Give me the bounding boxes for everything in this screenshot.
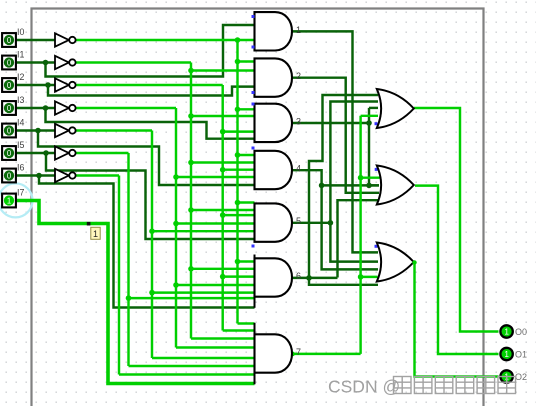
junction I4 branch: [35, 128, 41, 134]
svg-text:0: 0: [7, 36, 12, 45]
svg-text:1: 1: [296, 25, 301, 35]
wire I0' stub to gate5: [238, 201, 255, 203]
junction I5' branch to gate6: [126, 295, 132, 301]
wire I3' stub to gate7: [176, 346, 255, 348]
floating input dot at 253,47: [252, 46, 255, 49]
junction gate3 column top: [366, 120, 372, 126]
wire input I2 to inverter: [16, 84, 55, 86]
wire I0' into gate1: [238, 39, 255, 41]
watermark cjk glyph 5: [477, 377, 495, 394]
junction I0' at gate1 feed: [235, 37, 241, 43]
svg-text:0: 0: [7, 172, 12, 181]
junction I3 branch: [43, 105, 49, 111]
svg-text:5: 5: [296, 216, 301, 226]
wire I1' stub to gate3: [191, 115, 255, 117]
watermark cjk glyph 1: [394, 377, 412, 394]
wire I3' stub to gate6: [176, 284, 255, 286]
junction I1' branch to gate3: [188, 113, 194, 119]
output pin O2: [500, 370, 512, 382]
and-gate G4: [255, 151, 293, 189]
input pin I4: [2, 124, 16, 138]
junction gate7 output: [290, 352, 295, 357]
svg-text:I5: I5: [17, 140, 24, 150]
inverter U3 on I2: [55, 78, 76, 91]
wire net I4 direct to gate4: [38, 131, 255, 186]
wire gate2 output to OR column: [292, 78, 379, 193]
junction I0' branch to gate6: [235, 259, 241, 265]
svg-text:I7: I7: [17, 188, 24, 198]
wire gate5 output: [292, 222, 330, 224]
floating input dot at 376,123.7: [375, 122, 378, 125]
or-gate OR1 (O0): [377, 89, 414, 128]
floating input dot at 253,92.5: [252, 91, 255, 94]
wire gate3 output: [292, 122, 369, 124]
wire input I6 to inverter: [16, 174, 55, 176]
junction I0' branch to gate2: [235, 59, 241, 65]
input pin I6: [2, 169, 16, 183]
wire gate5 to OR1: [330, 102, 378, 223]
wire net I4' vertical column: [151, 131, 153, 359]
and-gate G7: [255, 323, 293, 385]
junction I4' branch to gate5: [149, 228, 155, 234]
wire I0' stub to gate2: [238, 60, 255, 62]
wire net I5' vertical column: [127, 153, 129, 366]
svg-text:1: 1: [504, 328, 509, 337]
junction I3' branch to gate4: [173, 174, 179, 180]
svg-text:CSDN @: CSDN @: [328, 377, 400, 397]
inverter U4 on I3: [55, 101, 76, 114]
wire gate3 stub to OR2: [369, 184, 379, 186]
input pin I0: [2, 33, 16, 47]
wire I3' stub to gate4: [176, 176, 255, 178]
wire net I7 (selected, thick) to gate7: [16, 201, 255, 384]
watermark cjk glyph 2: [414, 377, 432, 394]
wire net I6 direct to gate6: [39, 176, 255, 308]
wire net I3' vertical column: [175, 108, 177, 348]
wire I4' stub to gate7: [152, 357, 255, 359]
input pin I7: [2, 194, 16, 208]
wire I0' stub to gate3: [238, 108, 255, 110]
junction I2' branch to gate3: [220, 129, 226, 135]
svg-text:2: 2: [296, 71, 301, 81]
input pin I2: [2, 78, 16, 92]
wire I1' stub to gate4: [191, 161, 255, 163]
junction gate5 split: [328, 220, 334, 226]
svg-text:I2: I2: [17, 72, 24, 82]
wire I0' stub to gate4: [238, 154, 255, 156]
wire I3' stub to gate5: [176, 222, 255, 224]
wire gate4 output to OR3: [292, 170, 378, 269]
wire OR1 output to pin O0: [414, 108, 499, 332]
svg-text:1: 1: [7, 197, 11, 206]
wire I0' stub to gate7: [238, 322, 255, 324]
wire input I1 to inverter: [16, 61, 55, 63]
wire input I3 to inverter: [16, 107, 55, 109]
and-gate G2: [255, 58, 293, 96]
wire gate7 column: [359, 116, 361, 354]
wire gate3 column: [368, 108, 370, 185]
wire I2' stub to gate4: [223, 168, 255, 170]
inverter U1 on I0: [55, 33, 76, 46]
wire net I1' vertical column: [190, 63, 192, 339]
svg-text:0: 0: [7, 104, 12, 113]
wire net I0' output run: [76, 39, 238, 41]
wire gate6 to OR3 wing: [309, 278, 378, 285]
wire I1' stub to gate6: [191, 268, 255, 270]
junction gate3 to OR2: [366, 183, 372, 189]
watermark cjk glyph 4: [456, 377, 474, 394]
junction I0' branch to gate4: [235, 152, 241, 158]
wire net I1 direct to gate1: [46, 25, 255, 77]
wire input I4 to inverter: [16, 129, 55, 131]
svg-text:0: 0: [7, 127, 12, 136]
output dot OR3 tip: [412, 260, 416, 264]
svg-text:I0: I0: [17, 27, 24, 37]
junction gate7 to OR2: [358, 175, 364, 181]
svg-text:O2: O2: [515, 372, 527, 382]
wire net I2 direct to gate2: [48, 85, 255, 96]
wire net I3' output run: [76, 107, 176, 109]
wire net I6' vertical column: [118, 176, 120, 375]
junction I2' branch to gate6: [220, 274, 226, 280]
wire net I2' vertical column: [221, 85, 223, 331]
wire I0' stub to gate6: [238, 260, 255, 262]
inverter U5 on I4: [55, 124, 76, 137]
input pin I5: [2, 146, 16, 160]
svg-text:4: 4: [296, 164, 301, 174]
junction gate7 to OR3: [358, 274, 364, 280]
wire I5' stub to gate7: [129, 365, 255, 367]
input pin I3: [2, 101, 16, 115]
wire gate6 to OR1: [309, 95, 378, 278]
and-gate G5: [255, 203, 293, 241]
wire net I3 direct to gate3: [46, 108, 256, 139]
junction gate4 to OR2: [319, 183, 325, 189]
wire gate1 output to OR column: [292, 31, 378, 252]
wire gate5 to OR3: [330, 223, 378, 262]
floating input dot at 253,104: [252, 103, 255, 106]
wire net I0' vertical column: [236, 40, 238, 324]
watermark cjk glyph 6: [498, 377, 516, 394]
wire I5' stub to gate6: [129, 297, 255, 299]
svg-text:I6: I6: [17, 163, 24, 173]
svg-text:1: 1: [93, 229, 98, 239]
junction I0' branch to gate5: [235, 200, 241, 206]
inverter U6 on I5: [55, 146, 76, 159]
wire I4' stub to gate5: [152, 230, 255, 232]
wire I6' stub to gate7: [119, 373, 255, 375]
wire I4' stub to gate6: [152, 291, 255, 293]
wire I1' stub to gate2: [191, 69, 255, 71]
wire OR2 output to pin O1: [415, 186, 499, 354]
junction I2' branch to gate5: [220, 212, 226, 218]
junction I3' branch to gate5: [173, 221, 179, 227]
svg-text:I3: I3: [17, 95, 24, 105]
or-gate OR3 (O2): [377, 243, 414, 282]
wire net I2' output run: [76, 84, 223, 86]
wire handle on I7 wire: [87, 222, 91, 226]
wire gate3 stub to OR1: [369, 107, 378, 109]
svg-text:0: 0: [7, 149, 12, 158]
wire gate7 stub to OR1: [361, 115, 378, 117]
floating input dot at 376,246.3: [375, 245, 378, 248]
wire I2' stub to gate5: [223, 214, 255, 216]
wire net I4' output run: [76, 129, 152, 131]
svg-text:O0: O0: [515, 327, 527, 337]
output pin O0: [500, 325, 512, 337]
svg-text:1: 1: [504, 350, 509, 359]
svg-text:I1: I1: [17, 50, 24, 60]
svg-text:O1: O1: [515, 349, 527, 359]
svg-text:I4: I4: [17, 118, 24, 128]
junction I3' branch to gate6: [173, 282, 179, 288]
tooltip value 1 on I7 wire: [91, 227, 100, 239]
wire I2' stub to gate3: [223, 130, 255, 132]
floating input dot at 253,148: [252, 147, 255, 150]
floating input dot at 253,16.5: [252, 15, 255, 18]
inverter U2 on I1: [55, 56, 76, 69]
output pin O1: [500, 348, 512, 360]
junction I1' branch to gate6: [188, 266, 194, 272]
svg-text:3: 3: [296, 116, 301, 126]
wire gate7 stub to OR2: [361, 176, 380, 178]
wire net I6' output run: [76, 174, 119, 176]
wire gate7 output run: [292, 353, 361, 355]
selection halo around pin I7: [0, 183, 33, 217]
floating input dot at 253,246: [252, 245, 255, 248]
junction I2' branch to gate4: [220, 167, 226, 173]
svg-text:7: 7: [296, 347, 301, 357]
junction I2 branch: [45, 82, 51, 88]
wire net I5' output run: [76, 152, 129, 154]
junction I1' branch to gate2: [188, 68, 194, 74]
svg-text:6: 6: [296, 271, 301, 281]
wire net I1' output run: [76, 61, 191, 63]
or-gate OR2 (O1): [377, 166, 414, 205]
svg-text:0: 0: [7, 81, 12, 90]
junction I5 branch: [43, 150, 49, 156]
and-gate G6: [255, 255, 293, 308]
wire I2' stub to gate7: [223, 329, 255, 331]
junction I1' branch to gate4: [188, 160, 194, 166]
wire input I5 to inverter: [16, 152, 55, 154]
wire OR3 output to pin O2: [415, 263, 499, 377]
junction I0' branch to gate3: [235, 107, 241, 113]
wire net I5 direct to gate5: [46, 153, 255, 239]
and-gate G1: [255, 12, 293, 50]
wire I1' stub to gate5: [191, 209, 255, 211]
junction I1' branch to gate5: [188, 207, 194, 213]
junction gate6 split B: [306, 275, 312, 281]
wire I2' stub to gate6: [223, 275, 255, 277]
inverter U7 on I6: [55, 169, 76, 182]
wire I1' stub to gate7: [191, 337, 255, 339]
junction I4' branch to gate6: [149, 290, 155, 296]
watermark cjk glyph 3: [435, 377, 453, 394]
wire gate6 output: [292, 277, 338, 279]
wire gate7 stub to OR3: [361, 276, 378, 278]
wire gate6 to OR2: [338, 200, 380, 277]
svg-text:0: 0: [7, 59, 12, 68]
wire input I0 to inverter: [16, 39, 55, 41]
floating input dot at 376.2,169.4: [375, 168, 378, 171]
junction I1 branch: [43, 60, 49, 66]
junction I6 branch: [36, 173, 42, 179]
wire gate4 stub to OR2: [322, 184, 379, 186]
input pin I1: [2, 56, 16, 70]
and-gate G3: [255, 104, 293, 142]
